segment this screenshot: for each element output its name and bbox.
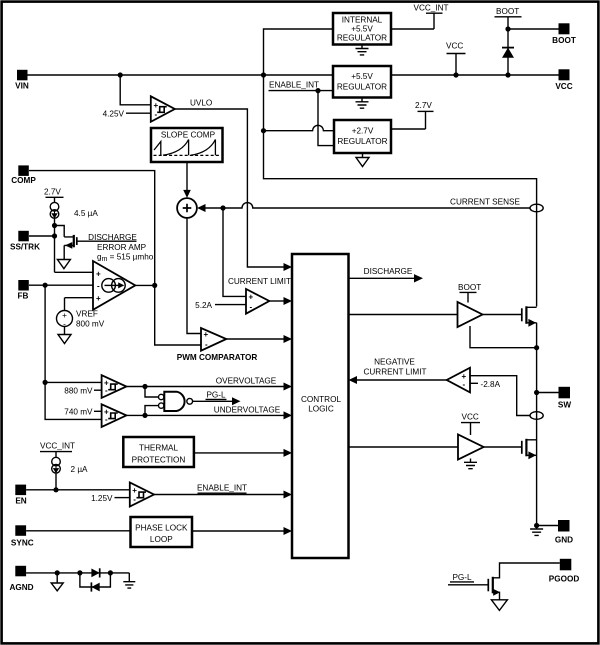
svg-text:VCC_INT: VCC_INT [40, 442, 75, 451]
node VCC driver rail [461, 413, 480, 435]
op-amp high-side driver [458, 302, 483, 327]
net label ENABLE_INT top [269, 81, 334, 91]
current source 2uA [52, 457, 88, 473]
svg-text:REGULATOR: REGULATOR [337, 137, 387, 146]
analog ground under +2.7V regulator [356, 153, 369, 167]
svg-text:THERMAL: THERMAL [139, 443, 179, 452]
gate NAND U4 [159, 392, 193, 411]
node BOOT driver rail [458, 283, 481, 303]
wire 880mV stub [94, 389, 102, 391]
wire 1.25V stub [115, 497, 130, 499]
wire neg CL + input to SW sense [470, 376, 530, 416]
net label PG-L [206, 391, 227, 400]
svg-text:FB: FB [18, 292, 29, 301]
wire EN pin to comparator [26, 489, 130, 491]
junction SS/TRK [52, 233, 57, 238]
wire to SW pin [537, 392, 559, 394]
svg-text:CURRENT LIMIT: CURRENT LIMIT [228, 277, 291, 286]
svg-text:740 mV: 740 mV [64, 408, 93, 417]
junction EN [53, 487, 58, 492]
arrow UVLO into control logic [284, 263, 293, 271]
svg-text:CONTROL: CONTROL [301, 395, 341, 404]
diode D3 (lower branch, pointing left) [80, 573, 111, 592]
svg-text:PHASE LOCK: PHASE LOCK [135, 524, 188, 533]
svg-text:CURRENT LIMIT: CURRENT LIMIT [363, 367, 426, 376]
wire SW node vertical [536, 348, 538, 526]
svg-text:EN: EN [15, 497, 26, 506]
svg-text:PROTECTION: PROTECTION [132, 455, 186, 464]
pin VCC [555, 69, 572, 91]
wire -2.8A stub [470, 382, 478, 384]
svg-text:-: - [463, 380, 466, 389]
wire summer to PWM + [187, 218, 201, 334]
diode D1 boot [502, 29, 514, 75]
op-amp current limit comparator [246, 289, 269, 314]
svg-text:4.25V: 4.25V [103, 110, 125, 119]
svg-text:+: + [154, 101, 159, 110]
wire source to SS node [54, 218, 56, 272]
wire FB to error amp - [29, 284, 93, 286]
svg-text:4.5 µA: 4.5 µA [74, 209, 98, 218]
svg-text:PG-L: PG-L [206, 391, 226, 400]
junction VCC stub [453, 72, 458, 77]
svg-text:DISCHARGE: DISCHARGE [88, 233, 137, 242]
junction UV / NAND [142, 413, 147, 418]
pin AGND [9, 566, 33, 592]
junction SW pin [534, 390, 539, 395]
junction VIN/UVLO [118, 72, 123, 77]
arrow PG-L [232, 397, 241, 405]
svg-text:ENABLE_INT: ENABLE_INT [197, 484, 247, 493]
ground symbol AGND right [123, 573, 135, 588]
junction line A / 2.7V reg branch [261, 128, 266, 133]
svg-text:2 µA: 2 µA [71, 465, 89, 474]
junction VIN/line A [261, 72, 266, 77]
svg-text:VIN: VIN [15, 82, 29, 91]
junction enable_int branch [315, 88, 320, 93]
svg-text:-: - [105, 386, 108, 395]
wire 5.2A stub [215, 304, 246, 306]
pin EN [15, 485, 26, 506]
slope comp waveform [154, 140, 215, 156]
analog ground under PGOOD FET [491, 600, 507, 611]
wire PLL out [192, 530, 285, 532]
svg-text:BOOT: BOOT [496, 7, 519, 16]
arrow into control logic right [349, 376, 358, 384]
pin COMP [11, 165, 36, 184]
pin SS/TRK [10, 231, 40, 252]
pin GND [555, 520, 573, 545]
wire current sense to current limit + [223, 208, 246, 296]
svg-text:INTERNAL: INTERNAL [342, 16, 383, 25]
svg-text:+: + [96, 269, 101, 278]
svg-text:800 mV: 800 mV [76, 319, 105, 328]
op-amp error amp [93, 261, 135, 310]
wire NAND input A [145, 387, 159, 398]
wire FB down to OV/UV comparators [45, 285, 102, 419]
wire driver to gate low [484, 446, 521, 448]
arrow into summer right [197, 204, 205, 212]
op-amp low-side driver [458, 435, 484, 460]
svg-text:DISCHARGE: DISCHARGE [364, 267, 413, 276]
svg-text:BOOT: BOOT [458, 283, 481, 292]
op-amp 880mV comparator [102, 375, 127, 398]
wire thermal out [194, 452, 285, 454]
wire discharge output [349, 277, 415, 279]
wire EN comparator out [154, 494, 285, 496]
svg-text:ERROR AMP: ERROR AMP [97, 243, 147, 252]
svg-text:SYNC: SYNC [11, 538, 34, 547]
wire undervoltage to control logic [126, 414, 284, 416]
svg-text:880 mV: 880 mV [64, 387, 93, 396]
wire control to high-side driver [349, 314, 458, 316]
svg-text:+: + [96, 294, 101, 303]
wire to GND pin [537, 525, 558, 527]
net label PG-L at PGOOD FET [448, 573, 488, 585]
arrow discharge [414, 274, 423, 282]
analog ground under discharge FET [57, 260, 70, 269]
summing node [177, 198, 197, 218]
pin VIN [15, 70, 29, 91]
svg-text:OVERVOLTAGE: OVERVOLTAGE [216, 376, 277, 385]
wire to discharge FET drain [55, 226, 65, 237]
svg-text:1.25V: 1.25V [91, 494, 113, 503]
arrow undervoltage [284, 411, 293, 419]
wire driver return to SW [470, 326, 537, 348]
svg-text:VCC: VCC [446, 42, 463, 51]
diode D2 (on wire, pointing right) [91, 568, 99, 577]
svg-text:UNDERVOLTAGE: UNDERVOLTAGE [214, 406, 281, 415]
junction GND [534, 523, 539, 528]
svg-text:AGND: AGND [9, 583, 33, 592]
svg-text:BOOT: BOOT [552, 36, 576, 45]
svg-text:CURRENT SENSE: CURRENT SENSE [450, 198, 520, 207]
svg-text:-: - [250, 302, 253, 311]
wire VIN rail [28, 74, 334, 76]
block +5.5V regulator U2 [333, 66, 391, 98]
node BOOT top [495, 7, 522, 29]
junction FB / 880 comp [43, 380, 48, 385]
svg-text:LOGIC: LOGIC [308, 404, 334, 413]
node 2.7V [391, 101, 434, 129]
svg-text:2.7V: 2.7V [44, 187, 61, 196]
svg-text:ENABLE_INT: ENABLE_INT [269, 81, 319, 90]
svg-text:+: + [249, 293, 254, 302]
wire PWM out [226, 338, 284, 340]
op-amp negative current limit comparator [447, 368, 470, 393]
svg-text:VCC: VCC [462, 413, 479, 422]
junction diode/VCC rail [505, 72, 510, 77]
ground under internal regulator [356, 45, 369, 55]
wire line A to 2.7V regulator with hop [264, 125, 335, 130]
svg-text:5.2A: 5.2A [195, 301, 212, 310]
svg-text:+2.7V: +2.7V [352, 127, 374, 136]
svg-text:-: - [155, 110, 158, 119]
svg-text:-: - [205, 340, 208, 349]
svg-text:SLOPE COMP: SLOPE COMP [161, 131, 216, 140]
pin FB [18, 280, 29, 301]
wire negative current limit to control [356, 379, 447, 381]
svg-text:2.7V: 2.7V [415, 101, 432, 110]
wire NAND input B [145, 406, 159, 416]
current sense element ellipse [530, 204, 543, 212]
ground symbol GND [530, 526, 543, 536]
svg-text:-: - [133, 495, 136, 504]
svg-text:+5.5V: +5.5V [351, 72, 373, 81]
analog ground open triangle [51, 573, 63, 591]
svg-text:+5.5V: +5.5V [351, 25, 373, 34]
arrow current limit [284, 297, 293, 305]
junction FB [43, 283, 48, 288]
op-amp 740mV comparator [102, 404, 127, 427]
pin PGOOD [549, 559, 580, 584]
wire COMP pin to error amp output node [29, 171, 201, 345]
transistor Q2 high-side NMOS [522, 306, 537, 347]
wire PG-L output [193, 400, 233, 402]
current sense element ellipse low [530, 412, 543, 420]
wire AGND [26, 572, 129, 574]
block internal +5.5V regulator U1 [333, 13, 391, 45]
op-amp PWM comparator [201, 328, 226, 351]
wire VIN to internal regulator [264, 29, 334, 75]
junction diode pair right [108, 570, 113, 575]
svg-text:PGOOD: PGOOD [549, 574, 580, 583]
svg-text:-2.8A: -2.8A [481, 380, 501, 389]
pin SYNC [11, 525, 34, 547]
transistor Q1 discharge FET [64, 235, 136, 260]
arrow into summer [183, 190, 191, 198]
svg-text:UVLO: UVLO [190, 98, 212, 107]
svg-text:+: + [132, 486, 137, 495]
current source 4.5uA [50, 202, 98, 218]
op-amp UVLO comparator [151, 96, 175, 122]
wire driver to gate [483, 314, 522, 316]
wire SS node to error amp + [55, 271, 94, 273]
wire VIN down to 2.7V reg and power FET [264, 75, 537, 307]
svg-text:LOOP: LOOP [150, 535, 173, 544]
wire VIN to UVLO + input [120, 75, 151, 105]
op-amp EN comparator [130, 483, 154, 507]
svg-text:VCC: VCC [555, 82, 572, 91]
wire source to EN line [55, 473, 57, 490]
arrow PWM [284, 335, 293, 343]
wire current sense line with hop [206, 203, 531, 208]
pin SW [558, 387, 571, 410]
svg-text:-: - [97, 282, 100, 291]
junction at boot stub [505, 26, 510, 31]
wire SS/TRK pin [29, 235, 55, 237]
analog ground under VREF [58, 327, 71, 344]
wire enable_int to 2.7V regulator [318, 91, 334, 146]
node VCC_INT for EN [40, 442, 75, 458]
label 2.7V above 4.5uA source [44, 187, 64, 202]
node VCC_INT top [391, 4, 449, 30]
svg-text:SS/TRK: SS/TRK [10, 243, 40, 252]
svg-text:VREF: VREF [76, 309, 98, 318]
svg-text:-: - [105, 415, 108, 424]
junction driver return / SW [534, 345, 539, 350]
wire error amp output [135, 284, 154, 286]
svg-text:PG-L: PG-L [452, 573, 472, 582]
transistor Q4 PGOOD FET [488, 563, 560, 600]
wire 740mV stub [94, 410, 102, 412]
wire current limit out [269, 300, 284, 302]
block phase lock loop [131, 517, 193, 547]
svg-text:PWM COMPARATOR: PWM COMPARATOR [177, 353, 258, 362]
svg-text:REGULATOR: REGULATOR [337, 83, 387, 92]
svg-text:NEGATIVE: NEGATIVE [374, 358, 415, 367]
wire BOOT to pin [508, 28, 559, 30]
svg-text:+: + [204, 330, 209, 339]
arrow enable_int [284, 491, 293, 499]
ground under +5.5V regulator [356, 98, 369, 109]
svg-text:SW: SW [558, 401, 571, 410]
arrow thermal [284, 449, 293, 457]
junction OV / NAND [142, 384, 147, 389]
wire control to low-side driver [349, 446, 459, 448]
junction COMP / error amp output [152, 283, 157, 288]
block thermal protection [123, 437, 194, 467]
junction AGND triangle [55, 570, 60, 575]
block +2.7V regulator U3 [334, 120, 391, 153]
wire UVLO output to control logic [175, 109, 285, 267]
wire slope comp to summer [186, 162, 188, 191]
node VCC above rail [446, 42, 466, 76]
net label ENABLE_INT out [197, 484, 247, 494]
block slope comp [151, 128, 223, 162]
svg-text:REGULATOR: REGULATOR [337, 34, 387, 43]
svg-text:GND: GND [555, 536, 573, 545]
block control logic [292, 254, 349, 558]
transistor Q3 low-side NMOS [522, 439, 537, 459]
junction current sense / current limit [220, 205, 225, 210]
wire VCC rail [391, 74, 559, 76]
junction diode pair left [77, 570, 82, 575]
junction discharge branch [52, 223, 57, 228]
voltage source VREF 800mV [57, 298, 105, 329]
arrow overvoltage [284, 383, 293, 391]
wire SYNC to PLL [26, 530, 130, 532]
svg-text:VCC_INT: VCC_INT [414, 4, 449, 13]
wire overvoltage to control logic [126, 386, 284, 388]
wire 4.25V stub [126, 112, 151, 114]
pin BOOT [552, 23, 576, 45]
arrow PLL [284, 527, 293, 535]
ground under low-side driver [464, 459, 477, 469]
svg-text:COMP: COMP [11, 176, 36, 185]
